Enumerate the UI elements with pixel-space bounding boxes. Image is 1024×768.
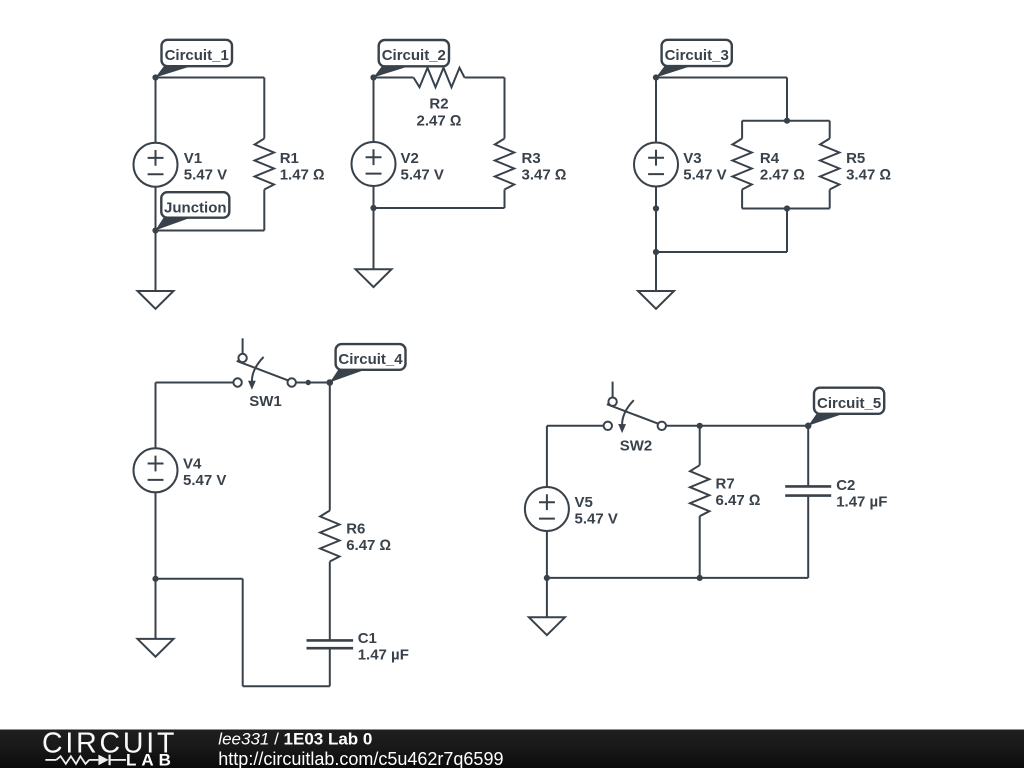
- svg-text:SW2: SW2: [620, 438, 653, 455]
- svg-text:Circuit_4: Circuit_4: [338, 351, 403, 368]
- svg-text:Circuit_2: Circuit_2: [382, 47, 446, 64]
- resistor R4: [732, 139, 751, 190]
- svg-text:R2: R2: [429, 95, 448, 112]
- wire ground c5: [546, 578, 548, 617]
- svg-text:V1: V1: [184, 150, 202, 167]
- node c3 rail top: [784, 118, 790, 124]
- wire top c1: [156, 77, 265, 79]
- svg-text:V2: V2: [401, 150, 419, 167]
- wire bottom rail c3: [742, 208, 830, 210]
- wire R5 lower stub: [829, 190, 831, 209]
- wire top left c2: [374, 77, 414, 79]
- wire right upper c2: [504, 78, 506, 139]
- logo wire right: [111, 759, 126, 761]
- ground c1: [138, 291, 174, 309]
- switch SW2: [604, 382, 666, 434]
- wire left upper c2: [373, 78, 375, 143]
- voltage source V5: [525, 487, 569, 531]
- wire left lower c2: [373, 186, 375, 208]
- node c3 left bottom: [653, 249, 659, 255]
- resistor R6: [320, 511, 339, 562]
- wire top left c4: [156, 382, 234, 384]
- svg-text:5.47 V: 5.47 V: [183, 472, 226, 489]
- svg-text:Junction: Junction: [164, 199, 227, 216]
- footer bar: [0, 730, 1024, 768]
- wire left upper c1: [155, 78, 157, 143]
- callout Circuit_3: [656, 40, 732, 78]
- wire left lower c4: [155, 492, 157, 579]
- wire top rail c3: [742, 120, 830, 122]
- svg-text:C2: C2: [836, 477, 855, 494]
- wire right upper c1: [263, 78, 265, 139]
- callout Circuit_5: [808, 388, 884, 426]
- wire left riser c4: [242, 579, 244, 687]
- wire R7 lower c5: [699, 516, 701, 578]
- svg-text:R5: R5: [846, 150, 865, 167]
- switch SW1: [233, 338, 295, 390]
- voltage source V3: [634, 143, 678, 187]
- svg-text:V5: V5: [575, 494, 593, 511]
- wire top left c5: [547, 425, 604, 427]
- svg-text:2.47 Ω: 2.47 Ω: [760, 166, 805, 183]
- svg-text:3.47 Ω: 3.47 Ω: [846, 166, 891, 183]
- wire left upper c3: [655, 78, 657, 143]
- wire R5 upper stub: [829, 121, 831, 139]
- wire bottom c3: [656, 251, 787, 253]
- node c3 left mid: [653, 205, 659, 211]
- wire left lower c3: [655, 187, 657, 253]
- svg-text:5.47 V: 5.47 V: [683, 166, 726, 183]
- logo diode bar: [108, 755, 110, 766]
- resistor R2: [414, 68, 465, 87]
- wire top right c2: [465, 77, 505, 79]
- svg-text:5.47 V: 5.47 V: [575, 511, 618, 528]
- wire right upper c4: [329, 383, 331, 511]
- svg-text:lee331 / 1E03 Lab 0: lee331 / 1E03 Lab 0: [218, 730, 372, 749]
- svg-text:1.47 Ω: 1.47 Ω: [280, 166, 325, 183]
- capacitor C2: [785, 486, 831, 495]
- voltage source V1: [134, 143, 178, 187]
- svg-text:Circuit_5: Circuit_5: [817, 395, 881, 412]
- callout Circuit_4: [330, 344, 406, 382]
- svg-text:R1: R1: [280, 150, 299, 167]
- svg-text:R7: R7: [716, 476, 735, 493]
- svg-text:SW1: SW1: [249, 393, 282, 410]
- wire right lower c1: [263, 190, 265, 231]
- svg-text:http://circuitlab.com/c5u462r7: http://circuitlab.com/c5u462r7q6599: [218, 749, 503, 768]
- svg-text:5.47 V: 5.47 V: [401, 166, 444, 183]
- svg-text:Circuit_1: Circuit_1: [165, 47, 229, 64]
- wire top drop c3: [786, 78, 788, 121]
- node c3 rail bottom: [784, 205, 790, 211]
- wire C2 lower c5: [807, 496, 809, 578]
- svg-text:6.47 Ω: 6.47 Ω: [716, 492, 761, 509]
- wire left lower c5: [546, 531, 548, 578]
- resistor R5: [820, 139, 839, 190]
- voltage source V4: [134, 448, 178, 492]
- svg-text:2.47 Ω: 2.47 Ω: [417, 113, 462, 130]
- wire top c3: [656, 77, 787, 79]
- logo diode: [98, 755, 108, 766]
- svg-text:LAB: LAB: [126, 751, 176, 768]
- wire ground c4: [155, 579, 157, 639]
- svg-text:C1: C1: [358, 630, 377, 647]
- ground c4: [138, 639, 174, 657]
- svg-text:R3: R3: [522, 150, 541, 167]
- node c5 bottom mid: [697, 575, 703, 581]
- svg-text:6.47 Ω: 6.47 Ω: [346, 537, 391, 554]
- ground c3: [638, 291, 674, 309]
- resistor R1: [255, 139, 274, 190]
- node c5 R7 top: [697, 423, 703, 429]
- ground c2: [356, 269, 392, 287]
- junction small c4: [306, 380, 311, 385]
- node c1 top: [152, 74, 158, 80]
- node c3 top: [653, 74, 659, 80]
- svg-text:V3: V3: [683, 150, 701, 167]
- svg-text:R4: R4: [760, 150, 780, 167]
- wire left lower c1: [155, 187, 157, 231]
- wire R4 lower stub: [741, 190, 743, 209]
- wire mid horizontal c4: [156, 578, 243, 580]
- svg-text:1.47 µF: 1.47 µF: [358, 647, 409, 664]
- svg-text:3.47 Ω: 3.47 Ω: [522, 166, 567, 183]
- wire switch to node c4: [296, 382, 330, 384]
- voltage source V2: [352, 142, 396, 186]
- svg-text:R6: R6: [346, 521, 365, 538]
- svg-text:5.47 V: 5.47 V: [184, 166, 227, 183]
- callout Circuit_2: [374, 40, 450, 77]
- wire R6 to C1: [329, 562, 331, 641]
- wire mid drop c3: [786, 209, 788, 253]
- wire R7 upper c5: [699, 426, 701, 465]
- logo wire left: [45, 759, 56, 761]
- resistor R3: [495, 139, 514, 190]
- wire bottom c1: [156, 230, 265, 232]
- logo resistor: [56, 756, 89, 764]
- callout Junction: [155, 192, 229, 230]
- wire R4 upper stub: [741, 121, 743, 139]
- node c2 top: [370, 74, 376, 80]
- wire bottom c2: [374, 207, 505, 209]
- ground c5: [529, 617, 565, 635]
- wire switch to C2 c5: [666, 425, 808, 427]
- capacitor C1: [307, 640, 354, 648]
- wire C2 upper c5: [807, 426, 809, 487]
- wire below C1: [329, 648, 331, 686]
- wire ground c3: [655, 252, 657, 291]
- node c2 bottom: [370, 205, 376, 211]
- node c5 bottom left: [544, 575, 550, 581]
- wire ground c2: [373, 208, 375, 269]
- wire bottom c4: [243, 685, 330, 687]
- node c4 left: [152, 576, 158, 582]
- svg-text:V4: V4: [183, 455, 202, 472]
- callout Circuit_1: [156, 40, 233, 78]
- node c5 right top: [805, 423, 812, 430]
- wire right lower c2: [504, 190, 506, 209]
- node c1 bottom: [152, 227, 158, 233]
- wire ground c1: [155, 231, 157, 292]
- svg-text:Circuit_3: Circuit_3: [665, 47, 729, 64]
- wire bottom c5: [547, 577, 808, 579]
- svg-text:1.47 µF: 1.47 µF: [836, 493, 887, 510]
- wire left upper c5: [546, 426, 548, 487]
- wire left upper c4: [155, 383, 157, 449]
- resistor R7: [690, 465, 709, 516]
- logo wire mid: [89, 759, 98, 761]
- node c4 top: [327, 379, 334, 386]
